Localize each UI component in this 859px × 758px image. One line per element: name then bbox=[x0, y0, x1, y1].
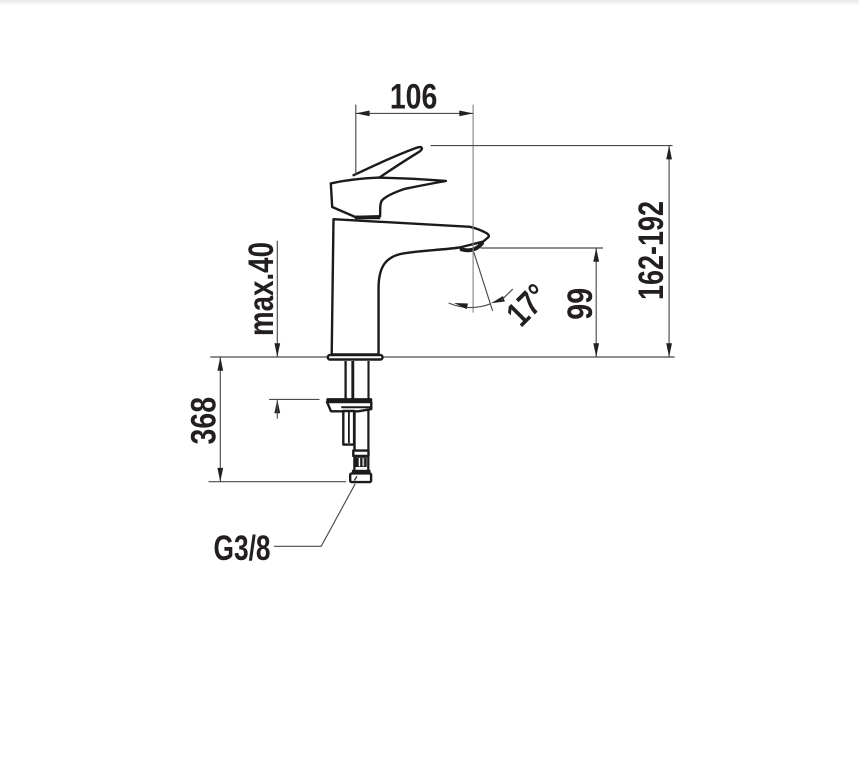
supply pipe left line bbox=[344, 361, 346, 399]
threaded rod below clamp bbox=[343, 411, 354, 445]
dimension 162-192: line bbox=[668, 146, 670, 357]
G3/8 nut bbox=[350, 473, 371, 482]
svg-text:17°: 17° bbox=[499, 277, 556, 334]
dimension 99: bottom arrow bbox=[593, 343, 599, 357]
svg-text:106: 106 bbox=[390, 78, 438, 117]
top shadow band bbox=[0, 0, 859, 6]
hose gray slit 2 bbox=[362, 458, 364, 466]
aerator dark crescent bbox=[462, 243, 482, 250]
leader line G3/8 bbox=[274, 484, 355, 547]
dimension 368: top arrow bbox=[217, 357, 223, 371]
dimension 368: line bbox=[219, 357, 221, 482]
hose left edge bbox=[353, 411, 355, 451]
handle base (wedge) bbox=[331, 178, 446, 217]
hose white slit 1 bbox=[359, 458, 361, 466]
threaded rod line bbox=[351, 361, 354, 399]
dimension 162-192: bottom arrow bbox=[666, 343, 672, 357]
dimension 106: line bbox=[356, 112, 473, 114]
arc right arrow bbox=[490, 296, 505, 306]
faucet body with spout bbox=[332, 219, 489, 354]
svg-text:368: 368 bbox=[184, 397, 223, 445]
dimension max.40: lower tail line bbox=[276, 399, 278, 418]
arc left arrow bbox=[453, 300, 468, 309]
angle arc bbox=[449, 303, 491, 308]
counter reference line bbox=[210, 356, 674, 358]
faucet lever handle bbox=[354, 147, 422, 177]
centerline through spout bbox=[472, 105, 474, 313]
nut shine tick bbox=[354, 476, 357, 480]
dimension max.40: upper tail line bbox=[276, 241, 278, 357]
dimension 368: bottom arrow bbox=[217, 468, 223, 482]
dimension max.40: up arrow bbox=[274, 399, 280, 413]
hose side left below bbox=[353, 457, 355, 470]
dimension 99: top arrow bbox=[593, 248, 599, 262]
dimension 106: left arrow bbox=[356, 111, 370, 117]
arc leader to text bbox=[501, 289, 513, 300]
dimension 99: line bbox=[595, 248, 597, 357]
dimension 162-192: top arrow bbox=[666, 146, 672, 160]
svg-text:99: 99 bbox=[561, 288, 600, 320]
rod inner line bbox=[348, 412, 350, 443]
gap shadow bar under handle base bbox=[355, 216, 381, 220]
hose collar bbox=[353, 451, 368, 456]
svg-text:max.40: max.40 bbox=[242, 242, 281, 336]
clamp top bar bbox=[326, 398, 372, 402]
dimension 368: bottom extension line bbox=[209, 481, 347, 483]
supply pipe right line bbox=[367, 361, 369, 399]
dimension max.40: lower extension line bbox=[269, 398, 319, 400]
dimension max.40: down arrow bbox=[274, 343, 280, 357]
angle ray 17 degrees bbox=[474, 252, 493, 311]
hose right edge bbox=[367, 410, 369, 451]
clamp body bbox=[327, 402, 371, 411]
extension line at lever tip bbox=[431, 145, 673, 147]
extension line at aerator bbox=[481, 247, 604, 249]
braided hose block bbox=[354, 457, 367, 467]
base flange bbox=[328, 355, 383, 359]
svg-text:162-192: 162-192 bbox=[632, 201, 671, 300]
hose side right below bbox=[367, 457, 369, 470]
clamp inner line bbox=[341, 406, 370, 408]
nut top flange band bbox=[352, 470, 371, 473]
dimension 106: right arrow bbox=[459, 111, 473, 117]
dimension 106: left extension line bbox=[355, 105, 357, 176]
svg-text:G3/8: G3/8 bbox=[214, 529, 271, 568]
